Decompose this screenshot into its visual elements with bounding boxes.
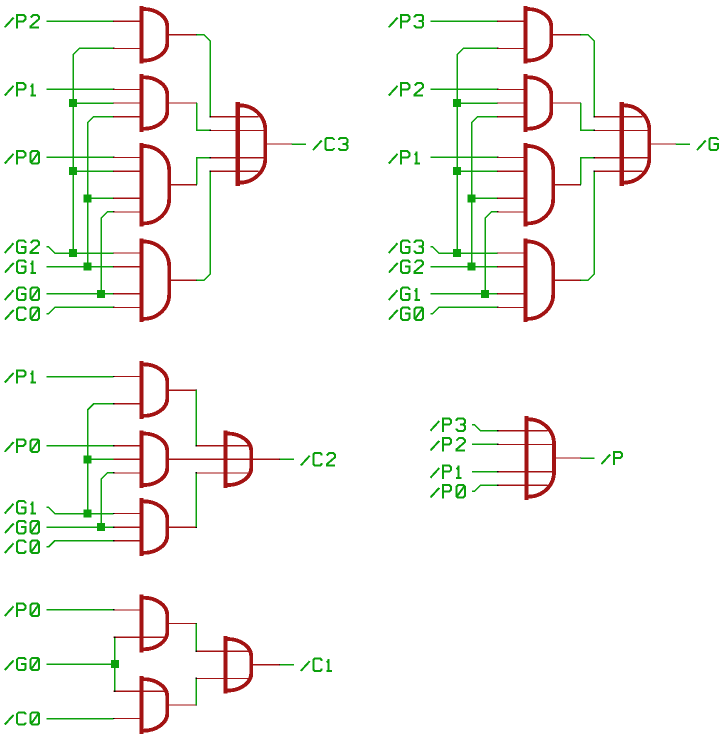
junction /G3/A2 g2 [453,99,461,107]
wire A1 out to A5 pin1 g1 [197,35,211,117]
wire /P0 jog to gate F pin4 g4 [472,485,498,491]
wire /G2 to gate A4 pin2 g2 [430,266,497,268]
wire A5 out to label /C3 g1 [292,143,306,145]
wire B3 out to label /C1 g5 [280,664,294,666]
label /P0 (g5) [5,604,39,617]
AND gate A2 g1 (3-input) [114,74,168,132]
wire /P2 to gate A2 g2 [430,88,497,90]
output stub B1 g5 [168,623,197,625]
junction /G0 g5 [111,660,119,668]
wire D1 out to D4 pin1 g3 [195,390,197,446]
AND gate F g4 (4-input) [498,416,554,500]
output stub D2 g3 (straight into D4 pin2) [168,458,197,460]
wire A2 out to A5 pin2 g2 [581,103,595,130]
net /G0 vertical to A3 pin4 g1 [101,212,114,294]
output stub A3 g2 [552,184,581,186]
wire D4 out to label /C2 g3 [280,458,294,460]
label /P1 (g3) [5,370,36,383]
wire A2 out to A5 pin2 g1 [197,103,211,130]
AND gate A3 g2 (4-input) [498,143,554,227]
label /P2 (g4) [431,438,465,451]
label /C3 (output g1) [313,138,347,150]
output stub D4 g3 [252,458,281,460]
wire /P0 to gate D2 g3 [46,445,113,447]
wire /G0 jog to gate A4 pin4 g2 [430,307,497,313]
label /P1 (g4) [431,465,462,478]
AND gate A5 g2 (4-input output gate) [594,102,649,186]
label /P3 (g2) [389,15,423,28]
AND gate D2 g3 (3-input) [114,430,168,488]
junction /G1/A4 g1 [84,263,92,271]
label /C0 (g5) [5,712,39,724]
wire /P1 to gate A2 g1 [46,88,113,90]
wire /P1 to gate A3 g2 [430,156,497,158]
output stub D1 g3 [168,389,197,391]
net /G2 vertical to A1 pin2 g1 [73,48,113,253]
label /C0 (g3) [5,541,39,553]
wire /P3 jog to gate F pin1 g4 [472,425,498,431]
wire /G0 to gate D3 pin2 g3 [46,526,113,528]
AND gate A1 g2 (2-input) [498,6,552,64]
label /P1 (g1) [5,83,36,96]
wire /P2 to gate A1 g1 [46,20,113,22]
output stub D3 g3 [168,526,197,528]
output stub F g4 [552,457,581,459]
net /G1 vertical to A2 pin3 g1 [88,117,114,267]
label /C0 (g1) [5,307,39,319]
junction /G2/A3 g2 [468,194,476,202]
wire /G3 jog to gate A4 pin1 g2 [430,247,497,253]
wire /P3 to gate A1 g2 [430,20,497,22]
output stub A2 g2 [552,102,581,104]
AND gate A3 g1 (4-input) [114,143,170,227]
net /G2 branch to A2 pin2 g1 [73,102,113,104]
wire /C0 to gate B2 pin2 g5 [46,718,113,720]
AND gate B1 g5 (2-input) [114,595,168,653]
AND gate A1 g1 (2-input) [114,6,168,64]
junction /G3/A4 g2 [453,249,461,257]
output stub A3 g1 [168,184,197,186]
AND gate D1 g3 (2-input) [114,361,168,419]
wire /G2 jog to gate A4 pin1 g1 [46,247,113,253]
net /G3 vertical to A1 pin2 g2 [457,48,497,253]
label /C1 (output g5) [301,659,332,671]
net /G1 branch to A3 pin3 g1 [88,197,114,199]
wire /G1 to gate A4 pin3 g2 [430,293,497,295]
output stub A5 g1 [264,143,293,145]
wire /G1 to gate A4 pin2 g1 [46,266,113,268]
wire A5 out to label /G g2 [676,143,690,145]
output stub A1 g1 [168,34,197,36]
AND gate A4 g2 (4-input) [498,238,554,322]
junction /G3/A3 g2 [453,167,461,175]
output stub A4 g1 [168,279,197,281]
net /G1 vertical to D1 pin2 g3 [88,404,114,514]
net /G0 vertical g5 [114,637,116,691]
label /G1 (g3) [5,501,36,513]
wire F out to label /P g4 [581,457,595,459]
label /G (output g2) [697,138,718,150]
output stub A2 g1 [168,102,197,104]
junction /G0/A3 g1 [97,290,105,298]
label /G3 (g2) [389,241,423,253]
label /G0 (g2) [389,307,423,319]
label /P2 (g1) [5,15,39,28]
junction /G1/D2 g3 [84,455,92,463]
net /G1 vertical to A3 pin4 g2 [485,212,498,294]
AND gate B3 g5 (2-input output gate) [196,636,251,694]
net /G2 branch to A3 pin2 g1 [73,170,113,172]
label /P0 (g3) [5,440,39,453]
AND gate A4 g1 (4-input) [114,238,170,322]
wire /P0 to gate B1 g5 [46,609,113,611]
junction /G1/A3 g1 [84,194,92,202]
junction /G2/A2 g1 [69,99,77,107]
net /G1 branch to D2 pin2 g3 [88,458,114,460]
wire D3 out to D4 pin3 g3 [195,473,197,527]
net /G3 branch to A3 pin2 g2 [457,170,497,172]
wire /G0 to junction g5 [46,663,115,665]
junction pixels g3/g4/g5 [113,376,114,377]
output stub B2 g5 [168,704,197,706]
pin line B2 pin1 g5 [115,690,166,692]
wire /C0 jog to gate D3 pin3 g3 [46,541,113,547]
output stub B3 g5 [252,664,281,666]
junction /G1/A3 g2 [481,290,489,298]
wire A3 out to A5 pin3 g1 [197,158,211,185]
label /P0 (g4) [431,485,465,498]
label /G0 (g5) [5,658,39,670]
wire /P0 to gate A3 g1 [46,156,113,158]
junction /G2/A4 g1 [69,249,77,257]
junction /G2/A3 g1 [69,167,77,175]
junction /G0/D3 g3 [97,523,105,531]
label /G0 (g3) [5,521,39,533]
net /G2 branch to A3 pin3 g2 [472,197,498,199]
wire A4 out to A5 pin4 g1 [197,171,211,280]
wire /G0 to gate A4 pin3 g1 [46,293,113,295]
output stub A1 g2 [552,34,581,36]
label /G1 (g2) [389,288,420,300]
net /G0 vertical to D2 pin3 g3 [101,473,114,527]
AND gate A5 g1 (4-input output gate) [210,102,265,186]
wire /G1 jog to gate D3 pin1 g3 [46,507,113,513]
label /P2 (g2) [389,83,423,96]
junction /G1/D3 g3 [84,510,92,518]
label /P1 (g2) [389,151,420,164]
wire A3 out to A5 pin3 g2 [581,158,595,185]
label /G2 (g2) [389,260,423,272]
wire /C0 jog to gate A4 pin4 g1 [46,307,113,313]
label /G1 (g1) [5,260,36,272]
wire /P2 to gate F pin2 g4 [472,443,498,445]
net /G3 branch to A2 pin2 g2 [457,102,497,104]
AND gate D4 g3 (3-input output gate) [196,430,252,488]
wire A1 out to A5 pin1 g2 [581,35,595,117]
label /C2 (output g3) [301,453,335,465]
label /P3 (g4) [431,418,465,431]
label /G0 (g1) [5,288,39,300]
net /G2 vertical to A2 pin3 g2 [472,117,498,267]
label /P0 (g1) [5,151,39,164]
wire /P1 to gate D1 g3 [46,376,113,378]
AND gate B2 g5 (2-input) [114,676,168,734]
pin line B1 pin2 g5 [115,636,166,638]
AND gate A2 g2 (3-input) [498,74,552,132]
label /G2 (g1) [5,241,39,253]
wire A4 out to A5 pin4 g2 [581,171,595,280]
wire B1 out to B3 pin1 g5 [195,624,197,652]
AND gate D3 g3 (3-input) [114,498,168,556]
junction /G2/A4 g2 [468,263,476,271]
output stub A4 g2 [552,279,581,281]
output stub A5 g2 [648,143,677,145]
wire /P1 to gate F pin3 g4 [472,471,498,473]
label /P (output g4) [601,452,622,465]
wire B2 out to B3 pin2 g5 [195,678,197,705]
